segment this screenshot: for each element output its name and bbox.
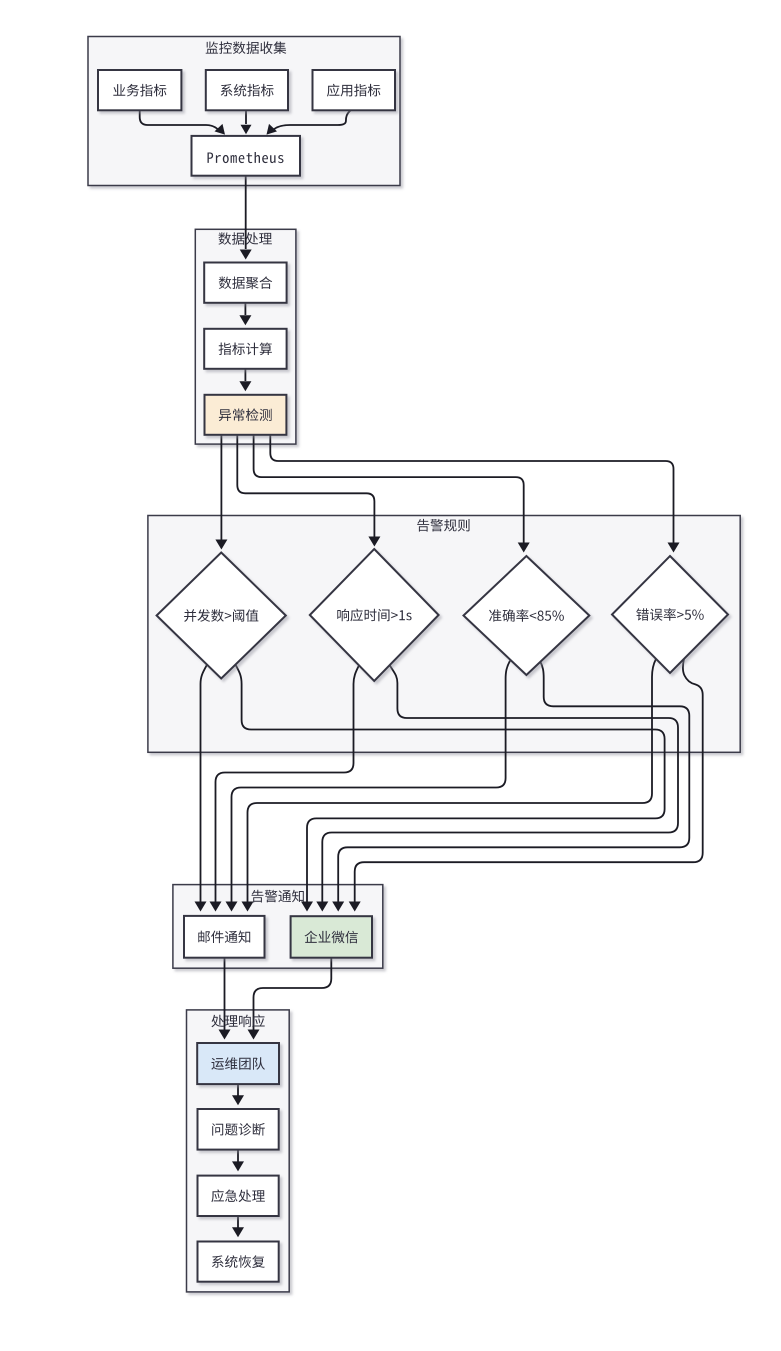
diamond 响应时间>1s [310, 549, 439, 681]
edge 异常检测 -> 错误率>5% [270, 435, 673, 547]
cluster title 处理响应 [211, 1015, 264, 1028]
edge 并发数>阈值 -> 邮件通知 [201, 665, 208, 906]
cluster 数据处理 [195, 229, 296, 444]
node 邮件通知 [184, 916, 265, 958]
diamond 错误率>5% [612, 556, 728, 673]
edge 运维团队 -> 问题诊断 [237, 1084, 239, 1096]
cluster 告警通知 [173, 885, 383, 969]
cluster title 数据处理 [218, 232, 272, 245]
cluster title 告警规则 [417, 519, 469, 532]
node 业务指标 [98, 70, 181, 110]
edge Prometheus -> 数据聚合 [245, 176, 247, 249]
node 系统恢复 [198, 1242, 279, 1282]
edge 异常检测 -> 准确率<85% [254, 435, 524, 547]
edge 并发数>阈值 -> 企业微信 [236, 665, 665, 906]
node Prometheus [192, 136, 301, 176]
edge 邮件通知 -> 运维团队 [224, 958, 226, 1034]
diamond 并发数>阈值 [157, 553, 286, 679]
edge 指标计算 -> 异常检测 [244, 369, 246, 381]
node 数据聚合 [204, 263, 286, 303]
edge 异常检测 -> 并发数>阈值 [220, 435, 222, 544]
diamond 准确率<85% [464, 556, 590, 675]
cluster title 监控数据收集 [206, 41, 287, 54]
node 问题诊断 [198, 1109, 279, 1150]
edge 业务指标 -> Prometheus [140, 110, 219, 130]
edge 数据聚合 -> 指标计算 [244, 303, 246, 315]
node 异常检测 [205, 395, 287, 435]
edge 错误率>5% -> 邮件通知 [248, 659, 657, 906]
edge 应用指标 -> Prometheus [273, 110, 351, 130]
edge 准确率<85% -> 企业微信 [338, 661, 689, 906]
edge 响应时间>1s -> 企业微信 [322, 665, 678, 906]
edge 异常检测 -> 响应时间>1s [237, 435, 374, 541]
edge 系统指标 -> Prometheus [245, 110, 247, 124]
node 系统指标 [206, 70, 288, 110]
cluster 告警规则 [148, 516, 740, 753]
node 指标计算 [204, 329, 286, 369]
node 应用指标 [313, 70, 396, 110]
cluster 处理响应 [187, 1010, 290, 1292]
cluster 监控数据收集 [88, 37, 400, 186]
edge 响应时间>1s -> 邮件通知 [216, 665, 360, 906]
cluster title 告警通知 [252, 890, 304, 903]
edge 问题诊断 -> 应急处理 [237, 1150, 239, 1162]
edge 企业微信 -> 运维团队 [254, 958, 332, 1034]
node 运维团队 [197, 1043, 279, 1084]
edge 应急处理 -> 系统恢复 [237, 1216, 239, 1228]
node 应急处理 [198, 1176, 279, 1216]
node 企业微信 [291, 916, 372, 958]
edge 准确率<85% -> 邮件通知 [232, 661, 511, 906]
edge 错误率>5% -> 企业微信 [355, 659, 703, 906]
